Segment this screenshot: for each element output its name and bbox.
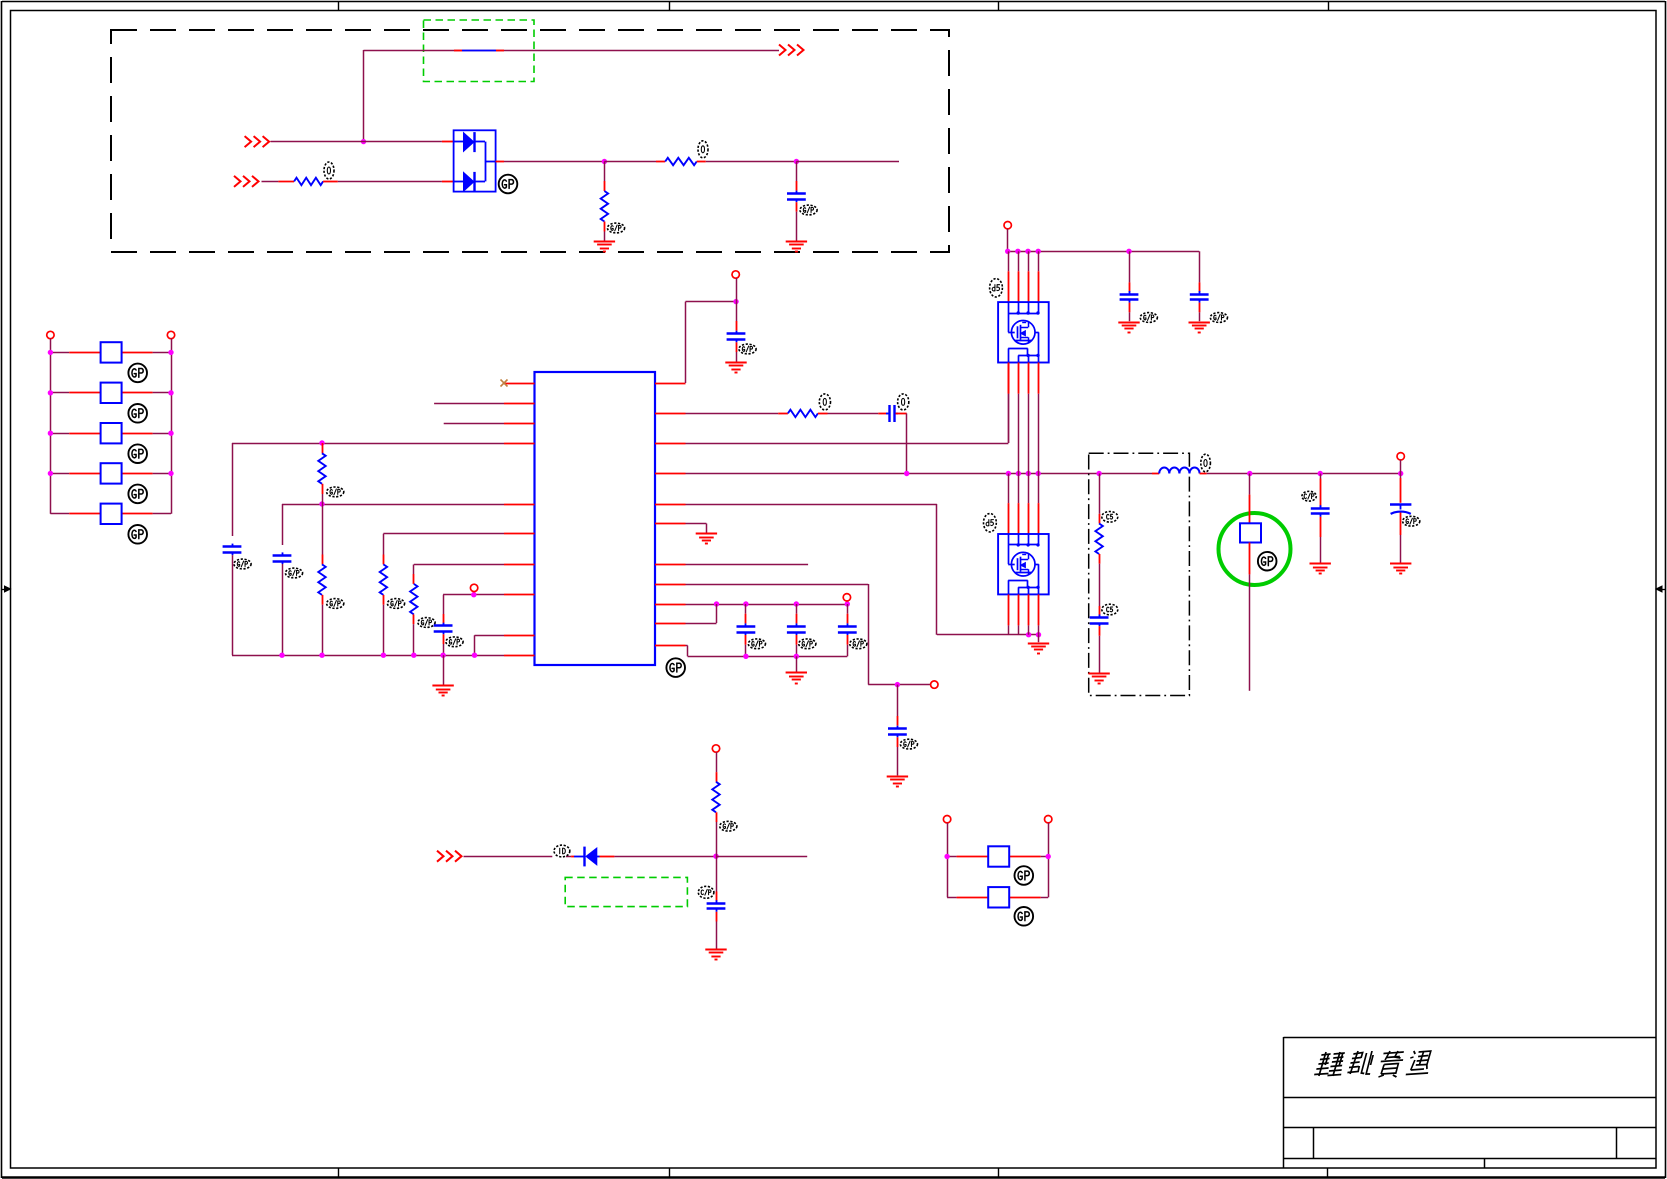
- wire rail B2: [1048, 823, 1050, 898]
- wire C2 branch top: [232, 443, 234, 536]
- green highlight box 1: [424, 20, 535, 82]
- junction: [319, 440, 324, 445]
- wire M2 top pin: [1028, 474, 1030, 535]
- wire M2 bot pin: [1008, 594, 1010, 634]
- wire to D2: [464, 856, 575, 858]
- wire C1 branch: [796, 162, 798, 191]
- value label R1: [324, 162, 334, 179]
- wire gnd stem rail: [796, 656, 798, 672]
- wire C9 top: [796, 604, 798, 623]
- label D2: [554, 845, 570, 857]
- wire M1 top pin: [1038, 251, 1040, 302]
- capacitor C3: [273, 552, 292, 564]
- label G/P R7: [418, 618, 435, 628]
- wire C13 top: [1320, 474, 1322, 508]
- wire C14 top: [1400, 474, 1402, 503]
- wire C3 bot: [282, 564, 284, 655]
- logo text 緯創資通: [1314, 1051, 1433, 1077]
- snubber box: [1089, 453, 1190, 695]
- wire R7 bot: [413, 614, 415, 655]
- wire J6 bot: [1249, 543, 1251, 691]
- green highlight box 2: [565, 877, 687, 906]
- wire pin r2: [686, 413, 788, 415]
- junction: [48, 350, 174, 355]
- wire M1 top pin: [1008, 251, 1010, 302]
- wire pin r7 stub: [686, 564, 809, 566]
- wire R9 to C12: [1099, 554, 1101, 606]
- frame zone ticks top: [339, 2, 1329, 11]
- pin U1 left 7: [504, 564, 535, 566]
- wire M1 bot pin: [1038, 363, 1040, 474]
- capacitor C4: [434, 623, 453, 635]
- junction: [48, 471, 174, 476]
- wire L1 right lead: [1200, 473, 1207, 475]
- wire pin r11 bus: [686, 646, 848, 657]
- wire port stem: [1400, 460, 1402, 474]
- wire pin7 net: [414, 565, 505, 584]
- port VCC tp: [843, 594, 850, 601]
- wire M2 bot pin: [1028, 594, 1030, 634]
- ground: [786, 242, 807, 252]
- label G/P C8: [748, 639, 765, 649]
- wire R6 bot: [383, 595, 385, 655]
- label C15: [698, 886, 714, 898]
- wire rail B1: [947, 823, 949, 898]
- pin U1 right 6: [655, 523, 686, 525]
- wire M1 top pin: [1028, 251, 1030, 302]
- junctions drain bus: [1005, 249, 1132, 254]
- pin U1 right 8: [655, 584, 686, 586]
- frame zone ticks bottom: [339, 1168, 1328, 1177]
- pin U1 right 3: [655, 443, 686, 445]
- junctions: [1026, 632, 1041, 637]
- capacitor C13: [1311, 505, 1330, 517]
- wire jumper row 4: [50, 473, 171, 475]
- label G/P C14: [1403, 516, 1420, 526]
- label G/P C11: [1210, 313, 1227, 323]
- wire SW bus: [686, 473, 1153, 475]
- wire J6 top: [1249, 474, 1251, 524]
- resistor R9: [1095, 524, 1102, 555]
- wire M1 pin1 bot: [1008, 363, 1010, 444]
- pin U1 right 11: [655, 645, 686, 647]
- label G/P C7: [900, 739, 917, 749]
- value label C6: [898, 394, 909, 410]
- wire M1 bot pin: [1028, 363, 1030, 474]
- wire jumper row 7: [947, 856, 1048, 858]
- wire C9 bot: [796, 635, 798, 656]
- port B2: [1045, 816, 1052, 823]
- wire M2 top pin: [1008, 474, 1010, 535]
- pin U1 left 9: [504, 635, 535, 637]
- port FB: [931, 681, 938, 688]
- frame center arrow right: [1656, 586, 1665, 592]
- label G/P R3: [607, 223, 624, 233]
- ground: [1390, 564, 1411, 574]
- pin U1 right 5: [655, 504, 686, 506]
- junction: [471, 592, 476, 597]
- wire port stem: [736, 278, 738, 302]
- port VBUS: [732, 271, 739, 278]
- ground: [696, 534, 717, 544]
- ground: [1118, 323, 1139, 333]
- port pullup: [712, 745, 719, 752]
- wire C6 down to SW: [896, 413, 907, 473]
- title block frame: [1284, 1037, 1657, 1168]
- wire M2 top pin: [1038, 474, 1040, 535]
- wire C7 bot: [897, 737, 899, 775]
- label G/P C5: [739, 344, 756, 354]
- pin U1 right 9: [655, 604, 686, 606]
- value label L1: [1201, 454, 1211, 472]
- port VOUT: [1397, 453, 1404, 460]
- wire vertical to diode node: [363, 50, 365, 142]
- port left rail: [47, 331, 54, 338]
- wire pin6 net: [383, 534, 504, 565]
- no-connect X: [501, 380, 508, 387]
- label C13: [1302, 491, 1316, 501]
- wire R4 bot lead: [322, 484, 324, 504]
- junctions: [743, 654, 799, 659]
- pin U1 left 5: [504, 504, 535, 506]
- capacitor C15: [707, 900, 726, 912]
- wire C3 branch top: [282, 504, 284, 545]
- wire M1 bot pin: [1018, 363, 1020, 474]
- label G/P R10: [720, 821, 737, 831]
- resistor R1: [294, 178, 323, 185]
- wire node right: [716, 856, 807, 858]
- wire jumper row 3: [50, 433, 171, 435]
- wire D2 anode: [600, 856, 717, 858]
- label G/P C4: [446, 637, 463, 647]
- wire C10 top: [847, 604, 849, 623]
- wire C12 bot: [1099, 626, 1101, 673]
- pin U1 right 1: [655, 383, 686, 385]
- wire net A top: [232, 443, 504, 445]
- diode D2: [574, 847, 600, 867]
- wire R5 bot: [322, 595, 324, 655]
- jumper J4: [101, 463, 122, 483]
- wire C10 bot: [847, 635, 849, 656]
- junctions rail: [714, 601, 850, 606]
- ground: [1189, 323, 1210, 333]
- wire L1 left lead: [1152, 473, 1159, 475]
- wire port to bus: [1007, 229, 1009, 252]
- resistor R2: [665, 158, 697, 165]
- wire R10 bot: [716, 812, 718, 856]
- diode D1 package: [454, 130, 496, 192]
- ground: [1028, 644, 1049, 654]
- ground: [1088, 674, 1109, 684]
- label GP J8: [1015, 907, 1034, 926]
- capacitor C2: [223, 544, 242, 556]
- pin U1 left 2: [504, 403, 535, 405]
- inductor L1: [1159, 467, 1199, 473]
- wire drain bus M1: [1008, 251, 1199, 253]
- connector arrow in 2: [234, 176, 259, 187]
- wire pin l3 stub: [444, 423, 504, 425]
- ground: [887, 777, 908, 787]
- wire jumper row 2: [50, 392, 171, 394]
- wire mid node: [604, 161, 665, 163]
- wire R10 top: [716, 752, 718, 782]
- value label R8: [819, 394, 830, 410]
- label G/P C10: [1140, 313, 1157, 323]
- wire C13 bot: [1320, 517, 1322, 563]
- wire C15 top: [716, 856, 718, 901]
- pin U1 left 1: [504, 383, 535, 385]
- frame center arrow left: [2, 586, 11, 592]
- ground: [786, 673, 807, 684]
- label M2: [984, 514, 997, 532]
- label G/P R4: [327, 487, 344, 497]
- resistor R10: [712, 782, 719, 813]
- label GP J3: [128, 444, 147, 463]
- wire net B: [282, 504, 504, 506]
- jumper J2: [101, 383, 122, 403]
- capacitor C1: [787, 191, 806, 203]
- ground: [705, 950, 726, 960]
- wire C5 top: [736, 302, 738, 331]
- ground: [432, 686, 453, 696]
- transistor M2: [998, 534, 1049, 594]
- wire M1 top pin: [1018, 251, 1020, 302]
- wire C12 lead: [1099, 606, 1101, 616]
- label GP J6: [1258, 552, 1277, 571]
- junction: [904, 471, 909, 476]
- label G/P C10: [850, 639, 867, 649]
- wire C1 to gnd: [796, 202, 798, 240]
- resistor R4: [318, 453, 325, 484]
- transistor M1: [998, 302, 1049, 362]
- wire R2 right: [697, 161, 797, 163]
- capacitor C10: [838, 623, 857, 635]
- wire D1 cathode out: [496, 161, 605, 163]
- jumper J1: [101, 342, 122, 362]
- wire gnd stem: [443, 655, 445, 685]
- capacitor C11: [1190, 291, 1209, 303]
- junction: [48, 431, 174, 436]
- pin U1 right 7: [655, 564, 686, 566]
- wire C5 bot: [736, 342, 738, 361]
- jumper J7: [988, 846, 1009, 866]
- label GP J2: [128, 404, 147, 423]
- wire jumper row 5: [50, 513, 171, 515]
- capacitor C5: [727, 331, 746, 343]
- capacitor C9: [787, 623, 806, 635]
- wire pin r10: [686, 604, 717, 624]
- resistor R6: [380, 564, 387, 595]
- wire right rail: [171, 339, 173, 514]
- label GP U1: [666, 658, 685, 677]
- wire R9 top: [1099, 474, 1101, 524]
- junctions bottom bus: [279, 653, 477, 658]
- junction: [319, 501, 324, 506]
- resistor R3: [601, 191, 608, 222]
- ground: [1310, 564, 1331, 574]
- wire VOUT bus: [1207, 473, 1401, 475]
- highlight circle: [1219, 513, 1291, 585]
- wire left rail: [50, 339, 52, 514]
- capacitor C10: [1120, 291, 1139, 303]
- wire M2 top pin: [1018, 474, 1020, 535]
- pin U1 left 3: [504, 423, 535, 425]
- capacitor C7: [888, 726, 907, 738]
- wire M2 bot pin: [1038, 594, 1040, 634]
- wire gnd stem m2: [1038, 635, 1040, 643]
- jumper J6: [1240, 523, 1261, 542]
- wire stub right: [796, 161, 899, 163]
- port B1: [943, 816, 950, 823]
- wire C2 bot: [232, 555, 234, 655]
- wire C8 top: [745, 604, 747, 623]
- capacitor C12: [1090, 615, 1109, 627]
- junction: [1247, 471, 1252, 476]
- label G/P R5: [327, 599, 344, 609]
- capacitor C8: [737, 623, 756, 635]
- wire C10 bot: [1129, 303, 1131, 322]
- wire pin r1 vbus: [686, 302, 737, 384]
- wire R1 to diode: [323, 181, 454, 183]
- wire pin r5 gate2: [686, 504, 1039, 635]
- label G/P C2: [234, 559, 251, 569]
- port VIN: [1004, 222, 1011, 229]
- wire C15 bot: [716, 912, 718, 949]
- wire pin r3 gate1: [686, 363, 1009, 444]
- wire pin8 net: [443, 595, 504, 624]
- wire pin r9 rail: [686, 604, 848, 606]
- ground: [725, 363, 746, 373]
- wire R8 to C6: [818, 413, 888, 415]
- wire to R1: [262, 181, 295, 183]
- wire C8 bot: [745, 635, 747, 656]
- pin U1 left 8: [504, 594, 535, 596]
- junction snubber tap: [1096, 471, 1101, 476]
- wire R5 top: [322, 504, 324, 564]
- junctions SW at fets: [1006, 471, 1041, 476]
- pin U1 left 6: [504, 533, 535, 535]
- capacitor C14 polarized: [1390, 504, 1411, 514]
- wire C10 branch: [1129, 251, 1131, 292]
- wire jumper row 1: [50, 352, 171, 354]
- label G/P C1: [800, 205, 817, 215]
- wire pin9 net: [475, 635, 505, 655]
- capacitor C6 series: [886, 405, 898, 422]
- ground: [594, 242, 615, 252]
- resistor R5: [318, 564, 325, 595]
- label GP J1: [128, 364, 147, 383]
- wire jumper row 8: [947, 897, 1048, 899]
- wire VOUT top: [364, 50, 780, 52]
- junction: [602, 159, 607, 164]
- wire R4 top lead: [322, 443, 324, 453]
- wire pin r6: [686, 524, 707, 533]
- junction: [361, 139, 366, 144]
- pin U1 right 10: [655, 623, 686, 625]
- wire bottom bus left: [232, 655, 504, 657]
- connector arrow out: [779, 45, 804, 56]
- junction: [48, 390, 174, 395]
- junctions: [944, 854, 1051, 859]
- jumper J3: [101, 423, 122, 443]
- pin U1 right 2: [655, 413, 686, 415]
- label GP D1: [499, 175, 518, 194]
- wire R3 to gnd: [604, 222, 606, 241]
- label G/P R6: [387, 599, 404, 609]
- label C12: [1102, 604, 1118, 615]
- junction: [713, 854, 718, 859]
- value label R2: [698, 141, 708, 158]
- pin U1 left 10: [504, 655, 535, 657]
- jumper J5: [101, 504, 122, 524]
- junction: [794, 159, 799, 164]
- port right rail: [167, 331, 174, 338]
- IC U1: [535, 372, 656, 665]
- resistor R8: [788, 410, 818, 417]
- wire C11 bot: [1199, 303, 1201, 322]
- pin U1 left 4: [504, 443, 535, 445]
- label G/P C3: [285, 568, 302, 578]
- label R9: [1102, 512, 1118, 523]
- wire colored segment: [454, 50, 504, 52]
- jumper J8: [988, 887, 1009, 907]
- port testpoint: [470, 584, 477, 591]
- wire M2 bot pin: [1018, 594, 1020, 634]
- wire R3 branch: [604, 162, 606, 192]
- dashed enclosure box: [111, 30, 949, 252]
- label GP J4: [128, 485, 147, 504]
- pin U1 right 4: [655, 473, 686, 475]
- wire C7 top: [897, 685, 899, 726]
- label GP J7: [1015, 866, 1034, 885]
- label GP J5: [128, 525, 147, 544]
- wire C14 bot: [1400, 513, 1402, 563]
- wire C4 bot: [443, 634, 445, 655]
- junction: [1398, 471, 1403, 476]
- junction: [895, 682, 900, 687]
- junction: [1318, 471, 1323, 476]
- wire C11 branch: [1199, 251, 1201, 292]
- resistor R7: [410, 584, 417, 615]
- label G/P C9: [799, 639, 816, 649]
- wire pin r8: [686, 584, 931, 685]
- connector arrow in 1: [245, 136, 270, 147]
- connector arrow in 3: [437, 851, 462, 862]
- label M1: [990, 279, 1003, 297]
- junction: [733, 299, 738, 304]
- wire anode1: [271, 141, 454, 143]
- wire pin l2 stub: [434, 403, 504, 405]
